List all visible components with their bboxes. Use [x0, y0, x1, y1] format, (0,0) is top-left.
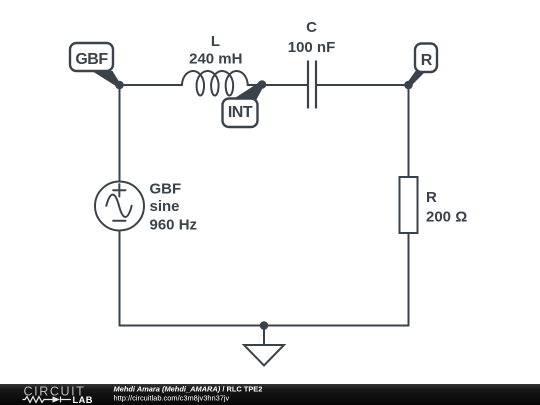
svg-text:GBF: GBF: [75, 51, 108, 68]
capacitor C1 plates: [308, 61, 316, 109]
svg-text:L: L: [211, 33, 220, 50]
footer bar: [0, 384, 540, 405]
wire: inductor to INT node to capacitor: [248, 84, 307, 86]
wire bottom horizontal: [120, 325, 409, 327]
node R flag pointer: [407, 71, 426, 87]
svg-text:C: C: [306, 19, 317, 36]
wire: capacitor to R node: [317, 84, 409, 86]
voltage source V1 minus sign: [113, 220, 125, 222]
svg-text:LAB: LAB: [73, 395, 93, 405]
node GBF label box: [70, 43, 113, 71]
svg-text:R: R: [421, 52, 433, 69]
wire top-left: GBF node to inductor: [120, 84, 183, 86]
svg-text:Mehdi Amara (Mehdi_AMARA) / RL: Mehdi Amara (Mehdi_AMARA) / RLC TPE2: [114, 384, 263, 393]
node R label box: [415, 44, 437, 73]
node GBF flag pointer: [92, 71, 121, 87]
svg-text:INT: INT: [228, 104, 253, 121]
svg-text:100 nF: 100 nF: [288, 39, 336, 56]
footer logo resistor squiggle and diode: [23, 397, 72, 403]
wire left vertical: source V1 bottom down: [119, 231, 121, 326]
svg-text:R: R: [426, 189, 437, 206]
voltage source V1 sine wave: [106, 195, 131, 217]
node INT label box: [223, 99, 258, 128]
wire right vertical: R node down to resistor top: [408, 85, 410, 177]
svg-text:960 Hz: 960 Hz: [150, 217, 198, 234]
ground symbol: [244, 326, 284, 366]
junction dot ground node: [260, 321, 269, 330]
wire left vertical: GBF node down to source V1 top: [119, 85, 121, 182]
footer logo diode triangle: [53, 396, 61, 402]
svg-text:sine: sine: [150, 198, 180, 215]
resistor R1 body: [400, 177, 418, 233]
wire right vertical: resistor bottom down: [408, 233, 410, 326]
svg-text:200 Ω: 200 Ω: [426, 208, 467, 225]
voltage source V1 plus sign: [113, 184, 125, 196]
junction dot node GBF: [115, 81, 124, 90]
inductor L1 coil: [182, 71, 248, 96]
svg-text:240 mH: 240 mH: [189, 51, 242, 68]
junction dot node INT: [258, 80, 267, 89]
svg-text:GBF: GBF: [150, 180, 182, 197]
node INT flag pointer: [231, 83, 264, 101]
junction dot node R: [404, 81, 413, 90]
svg-text:http://circuitlab.com/c3m8jv3h: http://circuitlab.com/c3m8jv3hn37jv: [114, 393, 230, 402]
voltage source V1 circle: [95, 182, 144, 231]
